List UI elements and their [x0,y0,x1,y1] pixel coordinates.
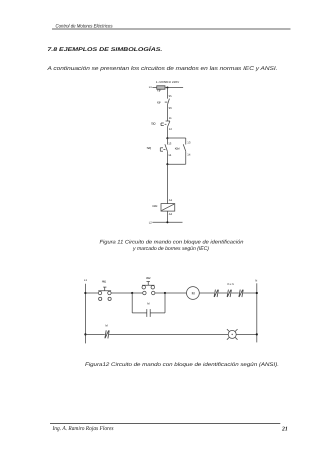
svg-text:S1Q: S1Q [151,122,156,126]
wire S2Q bottom [166,151,168,164]
wire to coil M [165,292,187,294]
svg-text:M: M [192,291,195,295]
wire right branch vertical bottom [185,151,187,164]
contact S2Q (NO start pushbutton) [166,138,168,145]
wire parallel top horizontal [167,137,185,139]
wire right branch vertical top [185,138,187,145]
rail N right [256,283,258,342]
svg-text:L2: L2 [149,220,153,224]
svg-text:Ing. A. Ramiro Rojas Flores: Ing. A. Ramiro Rojas Flores [52,425,114,432]
wire rung2 to contact M [85,333,104,335]
wire long drop to coil [166,164,168,203]
svg-text:95: 95 [169,94,173,98]
wire F2F to S1Q [166,105,168,121]
svg-text:14: 14 [187,152,191,156]
wire coil to L2 [166,211,168,222]
wire L2 bottom horizontal [152,221,182,223]
wire holding branch bottom right [150,312,165,314]
svg-text:11: 11 [169,116,172,120]
wire contact to pilot light [109,333,228,335]
wire coil to overloads [199,292,214,294]
wire rung1 to PB1 [85,292,98,294]
svg-text:A2: A2 [169,212,173,216]
rail L1 left [84,284,86,344]
svg-text:13: 13 [168,141,172,145]
wire to PB2 contact [132,292,143,294]
svg-text:N: N [255,279,257,283]
svg-text:Figura12 Circuito de mando c: Figura12 Circuito de mando con bloque de… [85,362,279,368]
svg-text:S2Q: S2Q [147,146,152,150]
wire holding branch left vertical [131,293,133,313]
contact F2F (NC thermal) [168,99,170,105]
svg-text:21: 21 [281,426,288,432]
overload contact OL1 [214,290,215,297]
wire L1 top horizontal [152,87,183,89]
wire main drop to F2F [166,88,168,99]
svg-text:K1M: K1M [175,147,180,151]
wire between OL1 OL2 [218,292,227,294]
svg-text:K1M: K1M [153,204,158,208]
wire OL3 to rail N [243,292,257,294]
overload contact OL2 [227,290,228,297]
svg-text:Figura 11 Circuito de mando: Figura 11 Circuito de mando con bloque d… [100,240,244,246]
svg-text:12: 12 [169,127,173,131]
svg-text:y marcado de bornes según (IEC: y marcado de bornes según (IEC) [132,246,209,252]
pilot light center mark [232,334,233,335]
wire pilot light to rail N [236,333,257,335]
contact S1Q (NC pushbutton) [166,120,170,122]
wire PB1 to PB2 [111,292,132,294]
svg-text:F2F: F2F [157,100,161,104]
svg-text:A1: A1 [169,198,173,202]
pushbutton PB1 (NC stop, double circuit) [98,291,101,294]
node PB2 right junction [164,292,166,294]
svg-text:F1F: F1F [157,89,161,93]
coil K1M [161,204,175,212]
contact M holding (NO) [146,309,148,317]
node parallel bottom junction [166,163,168,165]
wire PB2 to right node [155,292,165,294]
node rung2 right junction [256,333,258,335]
wire holding branch bottom left [132,312,147,314]
svg-text:1~50/60Hz 220V: 1~50/60Hz 220V [156,80,180,84]
svg-text:L1: L1 [84,278,88,282]
contact M aux (NC) rung2 [105,330,106,338]
pilot light PL [228,330,236,338]
wire between OL2 OL3 [231,292,239,294]
svg-text:13: 13 [187,141,191,145]
node rung1 left junction [84,292,86,294]
footer rule [50,422,280,424]
svg-text:7.8 EJEMPLOS DE SIMBOLOGÍAS.: 7.8 EJEMPLOS DE SIMBOLOGÍAS. [47,46,163,53]
svg-text:PB1: PB1 [102,279,107,283]
svg-text:PB2: PB2 [146,276,151,280]
node junction top [166,86,168,88]
svg-text:L1: L1 [149,85,153,89]
node rung1 right junction [256,292,258,294]
wire parallel bottom horizontal [167,163,185,165]
contact K1M aux (NO holding) [183,144,186,151]
svg-text:96: 96 [169,106,173,110]
svg-text:A continuación se presentan lo: A continuación se presentan los circuito… [46,65,277,72]
node rung2 left junction [84,333,86,335]
svg-text:14: 14 [168,153,172,157]
node parallel top junction [166,137,168,139]
coil M motor starter [187,287,200,300]
header rule [52,28,291,30]
overload contact OL3 [239,290,240,297]
pushbutton PB2 (NO start, double circuit) [142,286,146,290]
fuse F1F [157,86,165,90]
svg-text:O.L.'S: O.L.'S [227,283,234,286]
wire S1Q to parallel node [166,127,168,138]
node PB2 left junction [131,292,133,294]
node junction bottom [166,221,168,223]
wire holding branch right vertical [164,293,166,313]
